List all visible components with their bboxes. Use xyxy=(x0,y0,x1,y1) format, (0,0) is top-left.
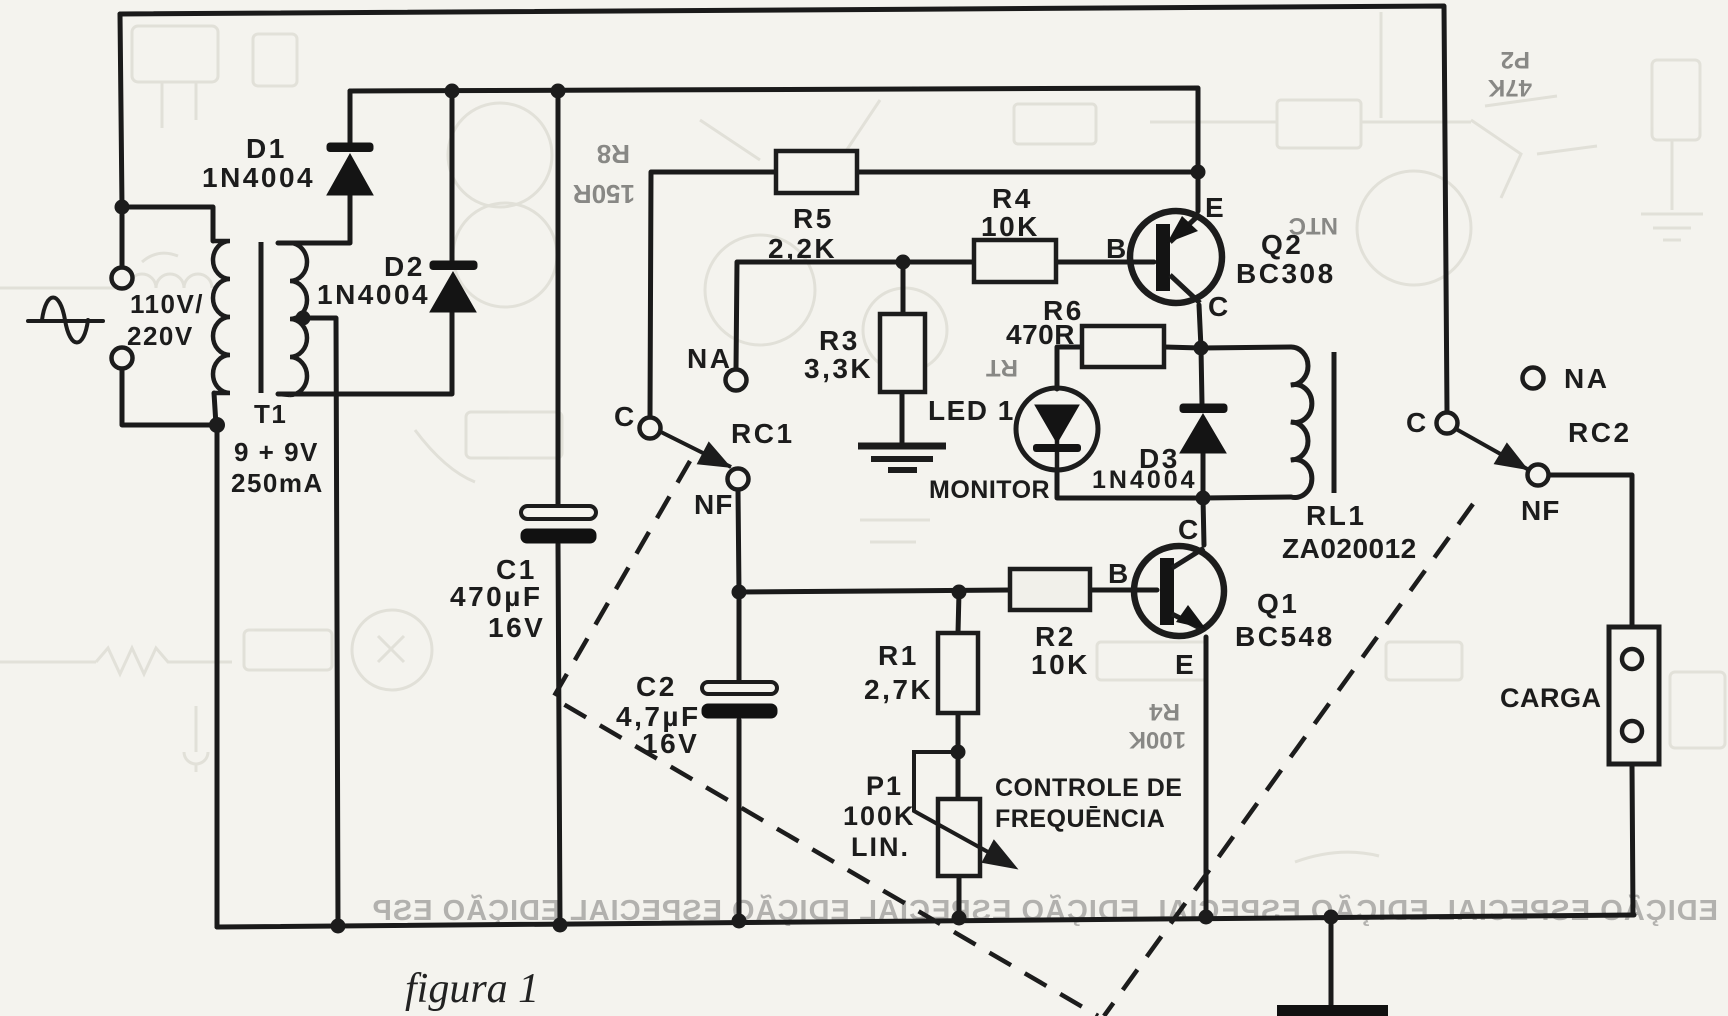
diode D1 xyxy=(327,143,373,195)
svg-text:47K: 47K xyxy=(1487,74,1532,101)
svg-text:1N4004: 1N4004 xyxy=(202,162,315,193)
svg-text:CONTROLE DE: CONTROLE DE xyxy=(995,774,1182,802)
svg-text:MONITOR: MONITOR xyxy=(929,476,1050,504)
wire R6 right xyxy=(1164,347,1201,348)
load CARGA box xyxy=(1609,627,1659,764)
diode D2 xyxy=(430,261,477,312)
svg-text:1N4004: 1N4004 xyxy=(317,279,430,310)
svg-text:Q2: Q2 xyxy=(1261,229,1303,260)
relay RL1 core xyxy=(1332,352,1337,493)
wire load bottom xyxy=(1632,764,1633,915)
switch RC1 arm xyxy=(661,432,731,467)
wire relay top xyxy=(1201,347,1291,348)
wire R6 left to LED anode xyxy=(1057,347,1082,389)
node R3 top xyxy=(896,255,911,270)
wire R3 bottom to ground xyxy=(900,392,905,444)
wire battery stub bottom xyxy=(1329,917,1334,1006)
transformer T1 primary xyxy=(213,241,230,393)
load terminal bottom xyxy=(1622,721,1642,741)
svg-text:470R: 470R xyxy=(1006,319,1075,350)
wire RC1 NA up to base node xyxy=(736,262,974,369)
mechanical link dashed RC2 xyxy=(1104,504,1473,1016)
wire C1 top xyxy=(556,91,561,506)
svg-text:C: C xyxy=(614,401,637,432)
svg-text:9 + 9V: 9 + 9V xyxy=(234,437,319,467)
svg-text:B: B xyxy=(1108,558,1131,589)
ghost mirrored text row (decorative) xyxy=(372,893,1719,927)
svg-text:R2: R2 xyxy=(1035,621,1076,652)
svg-text:figura 1: figura 1 xyxy=(405,966,539,1012)
terminal AC bottom xyxy=(112,348,133,369)
node D2 rail xyxy=(445,84,460,99)
wire relay bottom xyxy=(1203,497,1291,498)
mechanical link dashed RC1 xyxy=(553,461,1473,1016)
svg-text:RC1: RC1 xyxy=(731,418,795,449)
node R5 right xyxy=(1191,165,1206,180)
wire center tap to bottom rail xyxy=(305,318,338,926)
svg-text:ZA020012: ZA020012 xyxy=(1282,533,1417,564)
svg-text:D2: D2 xyxy=(384,251,425,282)
wire bottom ground rail xyxy=(217,915,1634,927)
svg-text:R5: R5 xyxy=(793,203,834,234)
transformer T1 secondary xyxy=(278,243,307,395)
switch RC2 arm xyxy=(1456,429,1529,470)
svg-text:100K: 100K xyxy=(843,801,916,831)
node center tap xyxy=(296,311,311,326)
svg-text:E: E xyxy=(1175,649,1196,680)
svg-text:P1: P1 xyxy=(866,771,903,801)
svg-text:220V: 220V xyxy=(127,321,194,351)
transistor Q2 BC308 xyxy=(1130,211,1222,303)
wire D3 anode to node xyxy=(1201,451,1206,498)
wire oscillator node to R2 xyxy=(739,590,1010,592)
svg-text:R3: R3 xyxy=(819,325,860,356)
wire primary top feed xyxy=(122,207,213,241)
diode D3 xyxy=(1180,404,1227,453)
ground node (R3) xyxy=(858,446,946,470)
svg-text:250mA: 250mA xyxy=(231,468,324,498)
wire Q1 emitter down xyxy=(1204,637,1209,917)
svg-text:470µF: 470µF xyxy=(450,581,542,612)
svg-text:LIN.: LIN. xyxy=(851,832,910,862)
svg-text:110V/: 110V/ xyxy=(130,289,204,319)
node P1 wiper tap xyxy=(951,745,966,760)
wire D2 anode to secondary bottom xyxy=(278,310,452,394)
svg-text:RL1: RL1 xyxy=(1306,500,1366,531)
svg-text:100K: 100K xyxy=(1128,726,1186,753)
svg-text:10K: 10K xyxy=(981,211,1040,242)
svg-text:10K: 10K xyxy=(1031,649,1090,680)
wire RC2 NF to load xyxy=(1549,475,1632,627)
wire D1 anode to secondary top xyxy=(278,194,350,243)
svg-text:RC2: RC2 xyxy=(1568,417,1632,448)
svg-text:T1: T1 xyxy=(254,399,287,429)
svg-text:FREQUĒNCIA: FREQUĒNCIA xyxy=(995,805,1165,833)
node rail center tap xyxy=(331,919,346,934)
svg-text:LED 1: LED 1 xyxy=(928,395,1015,426)
node rail C2 xyxy=(732,914,747,929)
svg-text:NA: NA xyxy=(687,343,732,374)
switch RC2 NF contact xyxy=(1528,465,1549,486)
terminal AC top xyxy=(112,268,133,289)
svg-text:NF: NF xyxy=(1521,495,1560,526)
svg-text:RT: RT xyxy=(986,354,1018,381)
wire D2 cathode up xyxy=(450,91,455,263)
svg-text:16V: 16V xyxy=(642,728,699,759)
node rail Q1 emitter xyxy=(1199,910,1214,925)
svg-text:C: C xyxy=(1178,514,1201,545)
transistor Q1 BC548 xyxy=(1134,546,1224,636)
svg-text:NA: NA xyxy=(1564,363,1609,394)
wire top border rail xyxy=(120,6,1447,412)
wire R5 left to RC1 common xyxy=(650,172,776,417)
wire left border from top to AC terminal xyxy=(120,14,122,267)
wire RC1 NF down to oscillator node xyxy=(738,490,739,592)
node C1 rail xyxy=(551,84,566,99)
svg-text:R8: R8 xyxy=(597,139,630,169)
switch RC1 NF contact xyxy=(728,469,749,490)
resistor R4 xyxy=(974,240,1056,282)
wire Q2 collector to D3 xyxy=(1199,305,1202,404)
svg-text:R4: R4 xyxy=(992,183,1033,214)
wire R4 right to Q2 base xyxy=(1056,260,1154,265)
svg-text:CARGA: CARGA xyxy=(1500,683,1602,713)
svg-text:C: C xyxy=(1406,407,1429,438)
svg-text:1N4004: 1N4004 xyxy=(1092,466,1198,494)
svg-text:NF: NF xyxy=(694,489,733,520)
svg-text:150R: 150R xyxy=(573,179,635,209)
switch RC1 NA contact xyxy=(726,370,747,391)
battery bar bottom xyxy=(1277,1005,1388,1016)
wire C1 bottom xyxy=(558,544,560,925)
svg-text:D1: D1 xyxy=(246,133,287,164)
potentiometer P1 wiper arrow xyxy=(914,752,1016,868)
svg-text:P2: P2 xyxy=(1501,46,1530,73)
svg-text:E: E xyxy=(1205,192,1226,223)
wire AC lower terminal to primary bottom and down to bottom rail xyxy=(122,369,217,927)
svg-text:16V: 16V xyxy=(488,612,545,643)
wire R5 right xyxy=(857,170,1198,175)
svg-text:3,3K: 3,3K xyxy=(804,353,873,384)
capacitor C1 xyxy=(521,506,596,543)
wire R1 top xyxy=(958,592,959,633)
node Q2 collector xyxy=(1194,341,1209,356)
resistor R6 xyxy=(1082,326,1164,367)
node rail P1 xyxy=(952,911,967,926)
svg-text:Q1: Q1 xyxy=(1257,588,1299,619)
node rail battery xyxy=(1324,910,1339,925)
wire P1 bottom xyxy=(957,876,962,918)
node monitor xyxy=(1196,491,1211,506)
wire C2 bottom xyxy=(737,720,742,921)
potentiometer P1 body xyxy=(938,799,980,876)
svg-text:BC548: BC548 xyxy=(1235,621,1335,652)
wire R3 top xyxy=(901,262,906,314)
LED1 monitor xyxy=(1016,388,1098,470)
svg-text:C2: C2 xyxy=(636,671,677,702)
svg-text:2,2K: 2,2K xyxy=(768,233,837,264)
svg-text:C: C xyxy=(1208,291,1231,322)
capacitor C2 xyxy=(702,682,777,718)
switch RC1 common contact xyxy=(640,418,661,439)
resistor R5 xyxy=(776,151,857,193)
node rail C1 xyxy=(553,918,568,933)
node primary bottom xyxy=(209,417,225,433)
wire D1 cathode up xyxy=(348,91,353,146)
resistor R3 xyxy=(880,314,925,392)
svg-text:2,7K: 2,7K xyxy=(864,674,933,705)
wire R1 to P1 xyxy=(956,713,961,799)
svg-text:BC308: BC308 xyxy=(1236,258,1336,289)
resistor R1 xyxy=(938,633,978,713)
resistor R2 xyxy=(1010,569,1090,610)
wire primary bottom to junction xyxy=(214,393,216,425)
switch RC2 NA contact xyxy=(1523,368,1544,389)
wire LED cathode down to monitor node xyxy=(1057,469,1203,498)
load terminal top xyxy=(1622,649,1642,669)
svg-text:B: B xyxy=(1106,233,1129,264)
wire R2 right to Q1 base xyxy=(1090,588,1157,593)
node R1 top xyxy=(952,585,967,600)
switch RC2 common contact xyxy=(1437,413,1458,434)
AC source symbol xyxy=(28,298,103,343)
wire positive rail y=90 to Q2 emitter xyxy=(350,88,1198,211)
svg-text:R4: R4 xyxy=(1149,698,1180,725)
transformer T1 core xyxy=(259,242,264,393)
node top-left xyxy=(115,200,130,215)
relay RL1 coil xyxy=(1291,347,1312,498)
wire C2 top xyxy=(737,592,742,682)
node oscillator NF xyxy=(732,585,747,600)
svg-text:R1: R1 xyxy=(878,640,919,671)
wire node to Q1 collector xyxy=(1203,498,1204,545)
